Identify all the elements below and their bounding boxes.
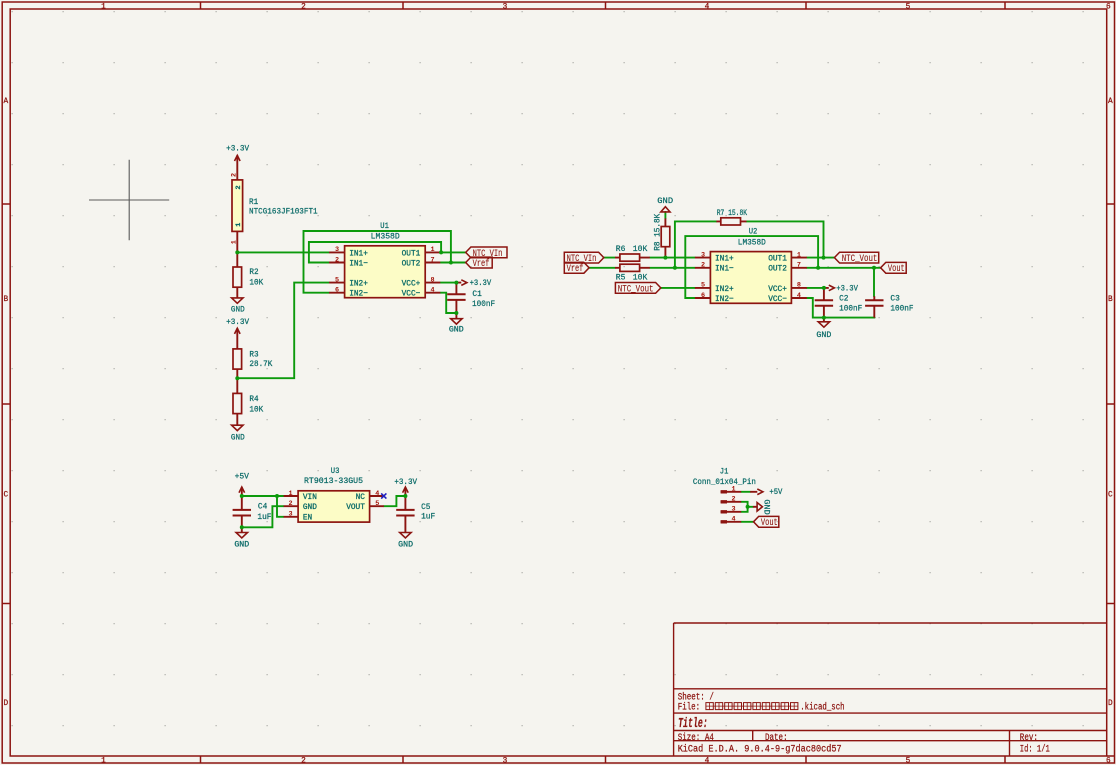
svg-text:1: 1 [731,486,735,494]
svg-text:6: 6 [701,292,705,300]
svg-text:D: D [4,700,9,708]
svg-text:.kicad_sch: .kicad_sch [800,702,844,714]
svg-text:1: 1 [101,3,106,11]
svg-text:5: 5 [906,758,911,765]
svg-text:Size: A4: Size: A4 [678,732,714,744]
svg-text:GND: GND [234,542,249,550]
svg-text:Rev:: Rev: [1020,733,1038,744]
svg-text:28.7K: 28.7K [249,361,272,369]
svg-text:10K: 10K [633,246,648,254]
svg-text:5: 5 [701,282,705,290]
svg-text:IN1+: IN1+ [715,254,734,264]
svg-text:3: 3 [288,511,292,519]
svg-text:OUT2: OUT2 [402,258,421,268]
svg-text:B: B [4,296,9,304]
svg-text:10K: 10K [249,406,263,414]
svg-text:C5: C5 [421,504,431,512]
svg-text:Vout: Vout [761,518,778,529]
svg-text:Sheet: /: Sheet: / [678,691,714,703]
svg-text:100nF: 100nF [472,301,495,309]
svg-text:IN2+: IN2+ [715,284,734,294]
svg-text:VCC−: VCC− [768,294,787,304]
svg-text:VCC−: VCC− [402,289,421,299]
svg-text:+3.3V: +3.3V [226,146,249,154]
svg-text:2: 2 [235,185,243,189]
svg-text:2: 2 [301,758,306,765]
svg-text:VIN: VIN [303,492,317,502]
svg-text:3: 3 [731,506,735,514]
svg-text:EN: EN [303,513,312,523]
svg-text:NTCG163JF103FT1: NTCG163JF103FT1 [249,208,318,216]
svg-text:3: 3 [701,251,705,259]
svg-text:1uF: 1uF [421,514,435,522]
svg-text:1: 1 [235,223,243,227]
svg-text:6: 6 [1106,758,1111,765]
svg-text:1: 1 [431,246,435,254]
svg-text:U3: U3 [331,468,340,476]
svg-text:10K: 10K [249,279,263,287]
svg-text:D: D [1108,700,1113,708]
svg-text:NC: NC [356,492,365,502]
svg-text:2: 2 [701,262,705,270]
svg-text:1: 1 [288,490,292,498]
svg-text:NTC_Vout: NTC_Vout [842,254,878,265]
svg-text:2: 2 [335,256,339,264]
svg-text:Title:: Title: [678,716,708,732]
svg-text:U2: U2 [749,229,758,237]
svg-text:LM358D: LM358D [738,240,766,248]
svg-text:OUT1: OUT1 [768,254,787,264]
svg-text:+3.3V: +3.3V [394,479,417,487]
svg-text:OUT2: OUT2 [768,264,787,274]
svg-text:VCC+: VCC+ [402,279,421,289]
svg-text:IN2−: IN2− [349,289,368,299]
svg-text:100nF: 100nF [839,305,862,313]
svg-text:C2: C2 [839,295,849,303]
svg-text:4: 4 [431,287,435,295]
svg-text:C1: C1 [472,291,482,299]
svg-text:4: 4 [375,490,379,498]
svg-text:R8 15.8K: R8 15.8K [654,213,662,250]
svg-text:R4: R4 [249,396,259,404]
svg-text:4: 4 [705,3,710,11]
svg-text:GND: GND [231,434,245,442]
svg-text:U1: U1 [380,223,389,231]
svg-text:Vout: Vout [888,264,905,275]
svg-text:6: 6 [335,287,339,295]
svg-text:GND: GND [816,332,831,340]
svg-text:IN1+: IN1+ [349,248,368,258]
svg-text:1: 1 [797,251,801,259]
svg-text:A: A [1108,98,1113,106]
svg-text:4: 4 [731,516,735,524]
svg-text:+3.3V: +3.3V [836,286,858,294]
svg-text:OUT1: OUT1 [402,248,421,258]
svg-text:R6: R6 [616,246,626,254]
svg-text:7: 7 [797,262,801,270]
svg-text:5: 5 [906,3,911,11]
svg-text:Conn_01x04_Pin: Conn_01x04_Pin [693,479,756,487]
svg-text:Vref: Vref [473,258,490,270]
svg-text:GND: GND [398,542,413,550]
svg-text:R2: R2 [249,269,259,277]
svg-text:IN2+: IN2+ [349,279,368,289]
svg-text:R3: R3 [249,352,259,360]
svg-text:1uF: 1uF [257,514,271,522]
svg-text:RT9013-33GU5: RT9013-33GU5 [304,478,363,486]
svg-text:+5V: +5V [235,474,250,482]
svg-text:2: 2 [231,173,239,177]
svg-text:1: 1 [101,758,106,765]
svg-text:2: 2 [301,3,306,11]
svg-text:GND: GND [449,327,464,335]
svg-text:3: 3 [335,246,339,254]
svg-text:7: 7 [431,256,435,264]
svg-text:VCC+: VCC+ [768,284,787,294]
svg-text:6: 6 [1106,3,1111,11]
svg-text:C: C [1108,492,1113,500]
svg-text:File:: File: [678,702,705,714]
svg-text:B: B [1108,296,1113,304]
svg-text:GND: GND [761,499,769,515]
svg-text:1: 1 [231,240,239,244]
svg-text:C3: C3 [890,295,900,303]
svg-text:GND: GND [657,198,673,206]
svg-text:100nF: 100nF [890,305,913,313]
svg-text:Vref: Vref [567,263,584,275]
svg-text:C: C [4,492,9,500]
svg-text:R5: R5 [616,275,626,283]
svg-text:5: 5 [375,500,379,508]
svg-text:+5V: +5V [769,489,782,497]
svg-text:4: 4 [705,758,710,765]
svg-text:C4: C4 [258,503,268,511]
svg-text:VOUT: VOUT [346,502,365,512]
svg-text:Id: 1/1: Id: 1/1 [1020,743,1050,755]
svg-text:3: 3 [503,758,508,765]
svg-text:IN1−: IN1− [715,264,734,274]
svg-text:GND: GND [231,307,245,315]
svg-text:+3.3V: +3.3V [226,319,249,327]
svg-text:3: 3 [503,3,508,11]
svg-text:10K: 10K [633,275,648,283]
svg-text:2: 2 [731,496,735,504]
svg-text:2: 2 [288,500,292,508]
svg-text:NTC_Vout: NTC_Vout [618,284,654,295]
svg-text:Date:: Date: [765,733,788,744]
svg-text:J1: J1 [720,469,729,477]
svg-text:A: A [4,98,9,106]
svg-text:5: 5 [335,276,339,284]
svg-text:8: 8 [797,282,801,290]
svg-text:4: 4 [797,292,801,300]
svg-text:R1: R1 [249,199,259,207]
svg-text:+3.3V: +3.3V [470,280,492,288]
svg-text:KiCad E.D.A. 9.0.4-9-g7dac80cd: KiCad E.D.A. 9.0.4-9-g7dac80cd57 [678,743,842,755]
svg-text:GND: GND [303,502,317,512]
svg-text:IN1−: IN1− [349,258,368,268]
svg-text:R7 15.8K: R7 15.8K [717,210,748,218]
svg-text:LM358D: LM358D [371,234,400,242]
svg-text:IN2−: IN2− [715,294,734,304]
svg-text:8: 8 [431,276,435,284]
